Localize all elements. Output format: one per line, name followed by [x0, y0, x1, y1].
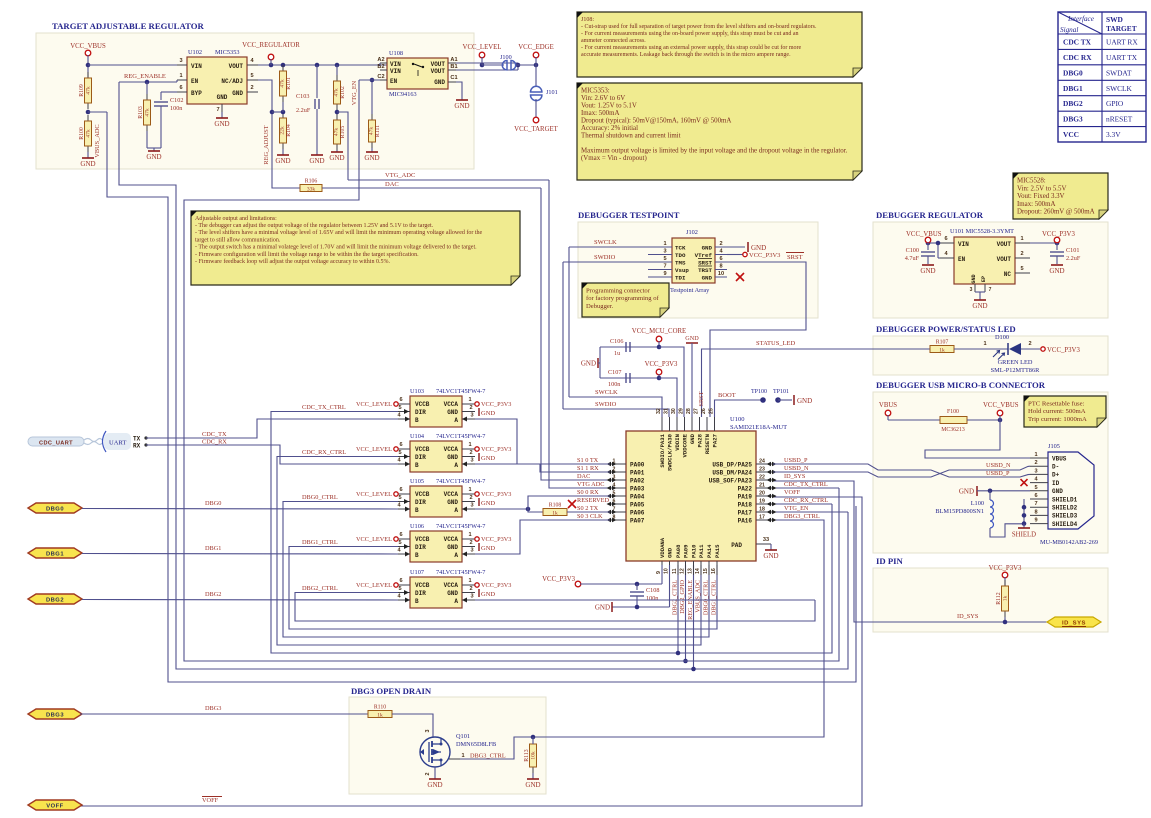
- svg-text:TCK: TCK: [675, 244, 686, 251]
- svg-text:TRST: TRST: [698, 267, 712, 274]
- svg-text:VCC_REGULATOR: VCC_REGULATOR: [242, 42, 300, 49]
- svg-text:GND: GND: [481, 410, 495, 417]
- svg-text:U106: U106: [410, 523, 424, 530]
- svg-text:EN: EN: [191, 78, 199, 85]
- svg-text:RESERVED: RESERVED: [577, 497, 609, 504]
- svg-text:Vout: 1.25V to 5.1V: Vout: 1.25V to 5.1V: [581, 103, 637, 110]
- svg-text:C101: C101: [1066, 247, 1079, 254]
- svg-text:- Firmware configuration will: - Firmware configuration will limit the …: [195, 251, 419, 258]
- svg-text:S0 0 RX: S0 0 RX: [577, 489, 599, 496]
- svg-text:target to still allow communic: target to still allow communication.: [195, 237, 281, 243]
- svg-text:PA19: PA19: [738, 493, 753, 500]
- svg-text:VOUT: VOUT: [431, 61, 446, 68]
- svg-text:GND: GND: [80, 160, 95, 168]
- svg-text:ammeter connected across.: ammeter connected across.: [581, 38, 646, 44]
- svg-text:74LVC1T45FW4-7: 74LVC1T45FW4-7: [436, 433, 485, 440]
- svg-text:4.7uF: 4.7uF: [905, 255, 920, 262]
- svg-text:PA08: PA08: [675, 544, 682, 558]
- svg-text:47k: 47k: [86, 86, 92, 95]
- svg-text:TDO: TDO: [675, 252, 686, 259]
- svg-text:100n: 100n: [170, 105, 182, 112]
- svg-text:GND: GND: [447, 454, 458, 461]
- svg-text:2: 2: [469, 540, 472, 546]
- svg-text:3: 3: [425, 730, 431, 733]
- svg-text:VCC_LEVEL: VCC_LEVEL: [356, 446, 392, 453]
- svg-text:SWCLK: SWCLK: [594, 239, 617, 246]
- svg-text:7: 7: [613, 507, 616, 513]
- svg-text:VCC_P3V3: VCC_P3V3: [542, 576, 575, 583]
- svg-text:GND: GND: [434, 79, 445, 86]
- svg-text:VOUT: VOUT: [431, 68, 446, 75]
- svg-text:6: 6: [1034, 493, 1037, 499]
- svg-text:3: 3: [470, 594, 473, 600]
- svg-text:DBG2_GPIO: DBG2_GPIO: [679, 579, 686, 613]
- svg-text:A: A: [454, 552, 458, 559]
- svg-text:DAC: DAC: [385, 181, 399, 188]
- svg-text:DBG1: DBG1: [1063, 84, 1083, 93]
- svg-text:SHIELD4: SHIELD4: [1052, 521, 1078, 528]
- svg-text:SRST: SRST: [698, 259, 712, 266]
- svg-text:VIN: VIN: [191, 63, 202, 70]
- svg-text:VCC_VBUS: VCC_VBUS: [70, 43, 106, 50]
- svg-text:GND: GND: [972, 302, 987, 310]
- svg-text:SML-P12MTT86R: SML-P12MTT86R: [991, 367, 1040, 374]
- svg-text:RX: RX: [133, 443, 141, 450]
- svg-text:DBG2: DBG2: [205, 591, 221, 598]
- svg-text:10: 10: [718, 271, 724, 277]
- svg-text:U107: U107: [410, 569, 424, 576]
- svg-text:USB_DM/PA24: USB_DM/PA24: [712, 469, 752, 476]
- svg-text:VCC_P3V3: VCC_P3V3: [749, 252, 780, 259]
- svg-text:GND: GND: [959, 488, 974, 496]
- svg-text:26: 26: [701, 408, 707, 414]
- svg-text:SHIELD3: SHIELD3: [1052, 513, 1078, 520]
- svg-text:VCC_LEVEL: VCC_LEVEL: [356, 401, 392, 408]
- svg-text:nRESET: nRESET: [1106, 115, 1133, 124]
- svg-text:R103: R103: [138, 106, 144, 119]
- svg-text:USBD_P: USBD_P: [784, 457, 808, 464]
- svg-text:14: 14: [695, 568, 701, 574]
- svg-text:USBD_P: USBD_P: [986, 470, 1010, 477]
- svg-text:74LVC1T45FW4-7: 74LVC1T45FW4-7: [436, 523, 485, 530]
- svg-text:1u: 1u: [614, 350, 620, 357]
- svg-text:VCC_P3V3: VCC_P3V3: [645, 361, 678, 368]
- svg-text:VCC_P3V3: VCC_P3V3: [481, 582, 511, 589]
- svg-text:1: 1: [663, 241, 666, 247]
- svg-text:- Firmware feedback loop will: - Firmware feedback loop will adjust the…: [195, 258, 390, 265]
- svg-text:2: 2: [1034, 460, 1037, 466]
- svg-text:VCC_VBUS: VCC_VBUS: [983, 402, 1019, 409]
- svg-text:CDC RX: CDC RX: [1063, 53, 1092, 62]
- svg-text:GND: GND: [689, 433, 696, 444]
- svg-text:DMN65D8LFB: DMN65D8LFB: [456, 741, 496, 748]
- svg-text:Q101: Q101: [456, 733, 470, 740]
- svg-text:1: 1: [179, 73, 182, 79]
- svg-text:16: 16: [711, 568, 717, 574]
- svg-text:VCCA: VCCA: [444, 536, 459, 543]
- svg-text:Trip current: 1000mA: Trip current: 1000mA: [1028, 416, 1087, 423]
- svg-text:U105: U105: [410, 478, 424, 485]
- svg-text:Accuracy: 2% initial: Accuracy: 2% initial: [581, 125, 638, 132]
- svg-text:2: 2: [1020, 251, 1023, 257]
- svg-text:47k: 47k: [145, 108, 151, 117]
- svg-text:DEBUGGER TESTPOINT: DEBUGGER TESTPOINT: [578, 210, 680, 220]
- svg-text:GND: GND: [702, 274, 713, 281]
- svg-text:R107: R107: [936, 340, 949, 346]
- svg-text:VCC_P3V3: VCC_P3V3: [481, 401, 511, 408]
- svg-text:74LVC1T45FW4-7: 74LVC1T45FW4-7: [436, 569, 485, 576]
- svg-text:3.3V: 3.3V: [1106, 130, 1121, 139]
- svg-text:Maximum output voltage is limi: Maximum output voltage is limited by the…: [581, 148, 848, 155]
- svg-text:NC/ADJ: NC/ADJ: [221, 78, 243, 85]
- svg-text:1k: 1k: [377, 712, 383, 718]
- svg-text:29: 29: [679, 408, 685, 414]
- svg-text:VTG_EN: VTG_EN: [784, 505, 809, 512]
- svg-text:GND: GND: [309, 157, 324, 165]
- svg-text:DEBUGGER REGULATOR: DEBUGGER REGULATOR: [876, 210, 984, 220]
- svg-text:GND: GND: [1049, 267, 1064, 275]
- svg-text:PA15: PA15: [714, 544, 721, 558]
- svg-text:2: 2: [425, 773, 431, 776]
- svg-text:U102: U102: [188, 49, 202, 56]
- svg-text:GND: GND: [481, 591, 495, 598]
- svg-text:GND: GND: [454, 102, 469, 110]
- svg-text:PAD: PAD: [731, 542, 742, 549]
- svg-text:C1: C1: [450, 75, 457, 81]
- svg-text:GND: GND: [751, 244, 766, 252]
- svg-text:F100: F100: [947, 409, 959, 415]
- svg-text:SHIELD1: SHIELD1: [1052, 496, 1078, 503]
- svg-text:2: 2: [250, 85, 253, 91]
- svg-text:3: 3: [613, 475, 616, 481]
- svg-text:MIC5353:: MIC5353:: [581, 88, 610, 95]
- svg-text:Adjustable output and limitati: Adjustable output and limitations:: [195, 216, 277, 222]
- svg-text:PA03: PA03: [630, 485, 645, 492]
- svg-text:MC36213: MC36213: [941, 427, 965, 433]
- svg-text:PA10: PA10: [691, 544, 698, 558]
- svg-text:47k: 47k: [369, 127, 375, 136]
- svg-text:VOFF: VOFF: [46, 803, 63, 809]
- svg-text:PA09: PA09: [683, 544, 690, 558]
- svg-text:VBUS_ADC: VBUS_ADC: [695, 580, 702, 613]
- svg-text:B1: B1: [450, 64, 457, 70]
- svg-text:VCCB: VCCB: [415, 401, 430, 408]
- svg-text:GND: GND: [481, 500, 495, 507]
- svg-text:TARGET: TARGET: [1106, 24, 1137, 33]
- svg-text:U108: U108: [389, 50, 403, 57]
- svg-text:VCC_TARGET: VCC_TARGET: [514, 126, 558, 133]
- svg-text:J102: J102: [686, 229, 698, 236]
- svg-text:25: 25: [709, 408, 715, 414]
- svg-text:Signal: Signal: [1060, 26, 1078, 34]
- svg-text:47k: 47k: [280, 79, 286, 88]
- svg-text:S1 0 TX: S1 0 TX: [577, 457, 599, 464]
- svg-text:SRST: SRST: [787, 254, 803, 261]
- svg-text:J108:: J108:: [581, 17, 594, 23]
- svg-text:TARGET ADJUSTABLE REGULATOR: TARGET ADJUSTABLE REGULATOR: [52, 21, 204, 31]
- svg-text:VDDCORE: VDDCORE: [682, 433, 689, 457]
- svg-text:PA28: PA28: [697, 433, 704, 447]
- svg-text:DIR: DIR: [415, 409, 426, 416]
- svg-text:VCC_P3V3: VCC_P3V3: [1047, 347, 1080, 354]
- svg-text:R113: R113: [524, 749, 530, 761]
- svg-text:8: 8: [613, 515, 616, 521]
- svg-text:MIC5353: MIC5353: [215, 49, 240, 56]
- svg-text:VBUS_ADC: VBUS_ADC: [94, 124, 101, 157]
- svg-text:BYP: BYP: [191, 90, 202, 97]
- svg-text:GND: GND: [146, 153, 161, 161]
- svg-text:VCC_EDGE: VCC_EDGE: [518, 44, 554, 51]
- svg-text:GND: GND: [481, 545, 495, 552]
- svg-text:7: 7: [989, 287, 992, 293]
- svg-text:for factory programming of: for factory programming of: [586, 295, 659, 302]
- svg-text:C2: C2: [377, 74, 384, 80]
- svg-text:Thermal shutdown and current l: Thermal shutdown and current limit: [581, 133, 681, 140]
- svg-text:DBG3: DBG3: [46, 712, 64, 718]
- svg-text:CDC_RX_CTRL: CDC_RX_CTRL: [302, 449, 346, 456]
- svg-text:R109: R109: [79, 84, 85, 97]
- svg-text:GND: GND: [364, 154, 379, 162]
- svg-text:R106: R106: [305, 179, 318, 185]
- svg-text:EN: EN: [390, 78, 398, 85]
- svg-text:SWDIO: SWDIO: [594, 254, 616, 261]
- svg-text:VCCB: VCCB: [415, 582, 430, 589]
- svg-text:5: 5: [398, 495, 401, 501]
- svg-text:18: 18: [759, 507, 765, 513]
- svg-text:3: 3: [470, 503, 473, 509]
- svg-text:SWCLK: SWCLK: [1106, 84, 1133, 93]
- svg-text:J101: J101: [546, 89, 558, 96]
- svg-text:20: 20: [759, 491, 765, 497]
- svg-text:3: 3: [179, 58, 182, 64]
- svg-text:DBG0: DBG0: [205, 500, 221, 507]
- svg-text:VDDANA: VDDANA: [659, 537, 666, 558]
- svg-text:GND: GND: [447, 409, 458, 416]
- svg-text:ID: ID: [1052, 480, 1060, 487]
- svg-text:6: 6: [399, 532, 402, 538]
- svg-text:accurate measurements. Leakage: accurate measurements. Leakage back thro…: [581, 52, 791, 58]
- svg-text:GND: GND: [329, 154, 344, 162]
- svg-text:1k: 1k: [1003, 596, 1009, 602]
- svg-text:VCC_P3V3: VCC_P3V3: [1042, 231, 1075, 238]
- svg-text:S0 2 TX: S0 2 TX: [577, 505, 599, 512]
- svg-text:6: 6: [719, 256, 722, 262]
- svg-text:9: 9: [1034, 518, 1037, 524]
- svg-text:GND: GND: [702, 244, 713, 251]
- svg-text:VCC_P3V3: VCC_P3V3: [481, 491, 511, 498]
- svg-text:7: 7: [216, 107, 219, 113]
- svg-text:USB_DP/PA25: USB_DP/PA25: [712, 461, 752, 468]
- svg-text:100n: 100n: [646, 595, 658, 602]
- svg-text:GND: GND: [1052, 488, 1063, 495]
- svg-text:- The debugger can adjust the: - The debugger can adjust the output vol…: [195, 222, 434, 229]
- svg-text:EN: EN: [958, 256, 966, 263]
- svg-text:VCCA: VCCA: [444, 446, 459, 453]
- svg-text:L100: L100: [971, 500, 984, 507]
- svg-text:Imax: 500mA: Imax: 500mA: [1017, 201, 1055, 208]
- svg-text:- Cut-strap used for full sepa: - Cut-strap used for full separation of …: [581, 23, 817, 30]
- svg-text:C107: C107: [608, 369, 621, 376]
- svg-text:- The level shifters have a mi: - The level shifters have a minimal volt…: [195, 229, 483, 236]
- svg-text:GND: GND: [667, 547, 674, 558]
- svg-text:GND: GND: [275, 157, 290, 165]
- svg-text:B: B: [415, 462, 419, 469]
- svg-text:22k: 22k: [280, 126, 286, 135]
- svg-text:6: 6: [399, 442, 402, 448]
- svg-text:VCC_P3V3: VCC_P3V3: [989, 565, 1022, 572]
- svg-text:1k: 1k: [939, 347, 945, 353]
- svg-text:R105: R105: [340, 126, 346, 139]
- svg-text:DBG2_CTRL: DBG2_CTRL: [302, 585, 338, 592]
- svg-text:TDI: TDI: [675, 274, 686, 281]
- svg-text:DEBUGGER POWER/STATUS LED: DEBUGGER POWER/STATUS LED: [876, 324, 1016, 334]
- svg-text:3: 3: [470, 413, 473, 419]
- svg-text:8: 8: [1034, 509, 1037, 515]
- svg-text:PA22: PA22: [738, 485, 753, 492]
- svg-text:DBG0_CTRL: DBG0_CTRL: [703, 580, 710, 615]
- svg-text:GREEN LED: GREEN LED: [998, 359, 1033, 366]
- svg-text:PA04: PA04: [630, 493, 645, 500]
- svg-text:DBG3 OPEN DRAIN: DBG3 OPEN DRAIN: [351, 686, 432, 696]
- svg-text:VCCB: VCCB: [415, 536, 430, 543]
- svg-text:MIC5528:: MIC5528:: [1017, 178, 1046, 185]
- svg-text:28: 28: [686, 408, 692, 414]
- svg-text:PA07: PA07: [630, 517, 645, 524]
- svg-text:GND: GND: [427, 781, 442, 789]
- svg-text:VIN: VIN: [390, 68, 401, 75]
- svg-text:GND: GND: [232, 90, 243, 97]
- svg-text:GND: GND: [525, 781, 540, 789]
- svg-text:B2: B2: [377, 64, 384, 70]
- svg-text:VCC_P3V3: VCC_P3V3: [481, 536, 511, 543]
- svg-text:DBG3: DBG3: [205, 705, 221, 712]
- svg-text:19: 19: [759, 499, 765, 505]
- svg-text:DBG1_CTRL: DBG1_CTRL: [711, 580, 718, 615]
- svg-text:33: 33: [763, 537, 769, 543]
- svg-text:1: 1: [1020, 236, 1023, 242]
- svg-text:13: 13: [688, 568, 694, 574]
- svg-text:5: 5: [613, 491, 616, 497]
- svg-text:Dropout (typical): 50mV@150mA,: Dropout (typical): 50mV@150mA, 160mV @ 5…: [581, 118, 731, 125]
- svg-text:31: 31: [664, 408, 670, 414]
- svg-text:32: 32: [656, 408, 662, 414]
- svg-text:PA17: PA17: [738, 509, 753, 516]
- svg-text:S1 1 RX: S1 1 RX: [577, 465, 599, 472]
- svg-text:GND: GND: [763, 552, 778, 560]
- svg-text:1: 1: [468, 487, 471, 493]
- svg-text:DBG0_CTRL: DBG0_CTRL: [302, 494, 338, 501]
- svg-text:PA14: PA14: [706, 544, 713, 558]
- svg-text:C102: C102: [170, 97, 183, 104]
- svg-text:CDC_UART: CDC_UART: [39, 440, 73, 446]
- svg-text:DBG3_CTRL: DBG3_CTRL: [784, 513, 820, 520]
- svg-text:VBUS: VBUS: [879, 402, 897, 409]
- svg-text:30: 30: [671, 408, 677, 414]
- svg-text:GND: GND: [685, 335, 699, 342]
- svg-text:1: 1: [468, 532, 471, 538]
- svg-text:DBG3: DBG3: [1063, 115, 1083, 124]
- svg-text:6: 6: [179, 85, 182, 91]
- svg-text:Programming connector: Programming connector: [586, 287, 651, 294]
- svg-text:BLM15PD800SN1: BLM15PD800SN1: [935, 508, 984, 515]
- svg-text:2: 2: [613, 467, 616, 473]
- svg-text:2.2uF: 2.2uF: [296, 107, 311, 114]
- svg-text:SAMD21E18A-MUT: SAMD21E18A-MUT: [730, 424, 787, 431]
- svg-text:PA01: PA01: [630, 469, 645, 476]
- svg-text:USBD_N: USBD_N: [784, 465, 809, 472]
- svg-text:ID_SYS: ID_SYS: [1062, 621, 1086, 627]
- svg-text:TP101: TP101: [773, 389, 789, 395]
- svg-text:VDDIN: VDDIN: [674, 434, 681, 451]
- svg-text:J100: J100: [500, 54, 512, 61]
- svg-text:REG_ADJUST: REG_ADJUST: [263, 125, 270, 164]
- svg-text:PA05: PA05: [630, 501, 645, 508]
- svg-text:D+: D+: [1052, 472, 1060, 479]
- svg-text:VCC_LEVEL: VCC_LEVEL: [463, 44, 502, 51]
- svg-text:2: 2: [469, 586, 472, 592]
- svg-text:VOUT: VOUT: [997, 256, 1012, 263]
- svg-text:GND: GND: [920, 267, 935, 275]
- svg-text:VCCA: VCCA: [444, 491, 459, 498]
- svg-text:3: 3: [663, 249, 666, 255]
- svg-text:9: 9: [663, 271, 666, 277]
- svg-text:VOFF: VOFF: [202, 797, 219, 804]
- svg-text:A: A: [454, 462, 458, 469]
- svg-text:GND: GND: [797, 397, 812, 405]
- svg-text:A: A: [454, 417, 458, 424]
- svg-text:USBD_N: USBD_N: [986, 462, 1011, 469]
- svg-text:DBG1: DBG1: [46, 551, 64, 557]
- svg-text:2: 2: [1028, 341, 1031, 347]
- svg-text:GND: GND: [214, 120, 229, 128]
- svg-text:VTref: VTref: [695, 252, 713, 259]
- svg-text:3: 3: [470, 548, 473, 554]
- svg-text:9: 9: [656, 571, 662, 574]
- svg-text:TP100: TP100: [751, 389, 767, 395]
- svg-text:5: 5: [398, 540, 401, 546]
- svg-text:PA18: PA18: [738, 501, 753, 508]
- svg-text:R101: R101: [286, 77, 292, 90]
- svg-text:U100: U100: [730, 416, 744, 423]
- svg-text:CDC_TX_CTRL: CDC_TX_CTRL: [784, 481, 828, 488]
- svg-text:Imax: 500mA: Imax: 500mA: [581, 110, 619, 117]
- svg-text:7: 7: [663, 264, 666, 270]
- svg-text:U101 MIC5528-3.3YMT: U101 MIC5528-3.3YMT: [950, 228, 1014, 235]
- svg-text:22: 22: [759, 475, 765, 481]
- svg-text:8: 8: [719, 264, 722, 270]
- svg-text:TMS: TMS: [675, 259, 686, 266]
- svg-text:STATUS_LED: STATUS_LED: [756, 340, 796, 347]
- svg-text:Testpoint Array: Testpoint Array: [670, 287, 710, 294]
- svg-text:CDC_RX_CTRL: CDC_RX_CTRL: [784, 497, 828, 504]
- svg-text:VCCA: VCCA: [444, 582, 459, 589]
- svg-text:DBG0: DBG0: [46, 506, 64, 512]
- svg-text:(Vmax = Vin - dropout): (Vmax = Vin - dropout): [581, 155, 647, 162]
- svg-text:VCC: VCC: [1063, 130, 1079, 139]
- svg-text:B: B: [415, 507, 419, 514]
- svg-text:5: 5: [398, 586, 401, 592]
- svg-text:A2: A2: [377, 57, 384, 63]
- svg-text:1: 1: [613, 459, 616, 465]
- svg-text:47k: 47k: [86, 129, 92, 138]
- svg-text:GND: GND: [971, 274, 977, 283]
- svg-text:6: 6: [613, 499, 616, 505]
- svg-text:47k: 47k: [334, 128, 340, 137]
- svg-text:6: 6: [399, 397, 402, 403]
- svg-text:U103: U103: [410, 388, 424, 395]
- svg-text:DIR: DIR: [415, 544, 426, 551]
- svg-text:SHIELD2: SHIELD2: [1052, 505, 1078, 512]
